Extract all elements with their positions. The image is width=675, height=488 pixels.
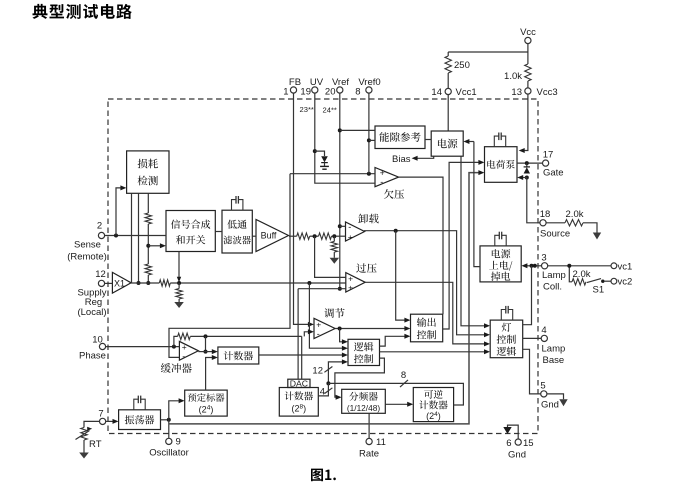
pin 19 UV bbox=[312, 87, 318, 93]
Buff output divider bbox=[289, 235, 297, 237]
Vcc terminal bbox=[525, 37, 531, 43]
block signal-combine 信号合成和开关 bbox=[166, 211, 215, 252]
svg-text:15: 15 bbox=[523, 438, 534, 449]
wire divider tap to overvoltage bbox=[315, 236, 346, 277]
svg-text:23**: 23** bbox=[300, 105, 314, 114]
svg-text:19: 19 bbox=[300, 86, 311, 97]
pin 9 Oscillator bbox=[166, 438, 172, 444]
pin 20 Vref bbox=[337, 87, 343, 93]
block outctrl 输出控制 bbox=[411, 314, 443, 342]
pin 5 Gnd bbox=[541, 391, 547, 397]
IC boundary dashed box bbox=[108, 99, 538, 434]
svg-text:8: 8 bbox=[401, 370, 406, 381]
svg-text:Vcc3: Vcc3 bbox=[537, 87, 558, 98]
resistor 1.0k bbox=[527, 52, 529, 64]
wire divider to revcounter bbox=[385, 403, 407, 405]
capacitor on oscillator bbox=[134, 399, 139, 410]
svg-text:vc1: vc1 bbox=[618, 261, 633, 272]
terminal Ovc2 with switch S1 bbox=[611, 278, 617, 284]
svg-text:Oscillator: Oscillator bbox=[149, 448, 189, 459]
svg-text:UV: UV bbox=[310, 77, 324, 88]
comparator dump 卸载 bbox=[346, 222, 365, 241]
svg-text:(28): (28) bbox=[291, 404, 306, 414]
wire overvoltage output bbox=[365, 282, 485, 344]
capacitor on lowpass bbox=[232, 200, 237, 211]
wire sense line bbox=[105, 235, 166, 237]
svg-text:3: 3 bbox=[541, 252, 546, 263]
svg-text:Gnd: Gnd bbox=[508, 450, 526, 461]
op-amp X1 bbox=[112, 272, 131, 293]
svg-text:S1: S1 bbox=[593, 285, 605, 296]
svg-text:Coll.: Coll. bbox=[543, 281, 562, 292]
svg-text:vc2: vc2 bbox=[618, 277, 633, 288]
svg-text:(Local): (Local) bbox=[77, 307, 106, 318]
comparator UV-lockout 欠压 bbox=[375, 168, 399, 187]
svg-text:Phase: Phase bbox=[79, 350, 106, 361]
svg-text:(24): (24) bbox=[199, 405, 214, 415]
svg-text:+: + bbox=[348, 232, 353, 242]
svg-text:24**: 24** bbox=[323, 106, 337, 115]
block revcounter 可逆计数器 bbox=[413, 388, 453, 422]
block lowpass 低通滤波器 bbox=[222, 210, 252, 253]
svg-text:12: 12 bbox=[95, 269, 106, 280]
svg-text:13: 13 bbox=[511, 87, 522, 98]
wire Vref to overvoltage bbox=[298, 288, 346, 290]
bus 4 to DAC counter bbox=[318, 383, 328, 396]
wire oscillator clock long line bbox=[169, 173, 479, 424]
svg-text:1.0k: 1.0k bbox=[504, 71, 522, 82]
svg-text:17: 17 bbox=[543, 150, 554, 161]
wire logicctrl to divider bbox=[335, 358, 385, 397]
block lamplogic 灯控制逻辑 bbox=[490, 320, 523, 358]
svg-text:18: 18 bbox=[540, 209, 551, 220]
pin 11 Rate bbox=[366, 438, 372, 444]
caption 图1. bbox=[311, 469, 323, 482]
bus 12 to logicctrl bbox=[328, 362, 342, 384]
block loss-detect 损耗检测 bbox=[127, 151, 169, 193]
title bbox=[32, 4, 47, 19]
svg-text:7: 7 bbox=[98, 409, 103, 420]
wire logicctrl to outctrl bbox=[380, 336, 406, 346]
resistor 2.0k at Source bbox=[546, 222, 565, 224]
svg-text:11: 11 bbox=[376, 437, 386, 448]
resistor 250 bbox=[447, 52, 449, 56]
svg-text:+: + bbox=[348, 283, 353, 293]
block bandgap 能隙参考 bbox=[375, 126, 425, 149]
wire signal-combine down arrow bbox=[178, 252, 180, 278]
RT network bbox=[84, 421, 100, 427]
wire clamp to source bbox=[527, 178, 540, 223]
svg-text:Gnd: Gnd bbox=[541, 400, 559, 411]
wire pin3 to Ovc1 bbox=[548, 265, 611, 267]
comparator overvoltage 过压 bbox=[346, 273, 365, 292]
resistor 2.0k at pin3 bbox=[569, 266, 572, 282]
block prescaler 预定标器 bbox=[185, 390, 228, 416]
wire DAC link from vref node bbox=[297, 289, 299, 380]
wire outctrl to chargepump bbox=[443, 162, 479, 329]
wire Vref to dump minus bbox=[340, 225, 346, 227]
svg-text:2.0k: 2.0k bbox=[566, 209, 584, 220]
svg-text:2.0k: 2.0k bbox=[573, 269, 591, 280]
wire regulate to logicctrl bbox=[340, 329, 343, 342]
wire buffer out to counter bbox=[198, 351, 212, 353]
wire gate output bbox=[517, 162, 543, 164]
wire pin7 to oscillator bbox=[106, 420, 113, 422]
svg-text:2: 2 bbox=[97, 220, 102, 231]
svg-text:FB: FB bbox=[289, 77, 301, 88]
bus 8 to revcounter bbox=[328, 383, 463, 405]
pin 4 Lamp Base bbox=[541, 335, 547, 341]
svg-text:Vcc: Vcc bbox=[520, 27, 536, 38]
svg-text:14: 14 bbox=[431, 87, 442, 98]
svg-text:Gate: Gate bbox=[543, 168, 564, 179]
svg-text:-: - bbox=[380, 177, 383, 187]
wire loss-detect out1 bbox=[131, 193, 133, 283]
block divider 分频器 bbox=[342, 389, 386, 413]
block power 电源 bbox=[431, 131, 463, 156]
wire counter to logicctrl bbox=[259, 354, 343, 356]
pin 7 bbox=[100, 418, 106, 424]
wire loss-detect out2 bbox=[138, 193, 140, 283]
wire power to lamplogic bbox=[461, 156, 485, 326]
wire UV-lockout output bbox=[399, 177, 443, 314]
wire oscillator output node bbox=[161, 419, 169, 421]
pin 18 Source bbox=[540, 220, 546, 226]
wire UV line bbox=[315, 93, 375, 183]
wire logicctrl to lamplogic bbox=[380, 351, 485, 353]
wire Vref0 to bandgap bbox=[369, 139, 375, 141]
svg-text:4: 4 bbox=[541, 325, 546, 336]
wire pin3 to powerupdown bbox=[527, 265, 542, 267]
block powerupdown 电源上电/掉电 bbox=[480, 246, 521, 282]
svg-text:250: 250 bbox=[454, 60, 470, 71]
svg-text:10: 10 bbox=[92, 335, 103, 346]
pin 14 Vcc1 bbox=[445, 88, 451, 94]
svg-text:Buff: Buff bbox=[261, 231, 277, 241]
wire lowpass to Buff bbox=[252, 235, 256, 237]
svg-text:Rate: Rate bbox=[359, 449, 379, 460]
Bias output bbox=[417, 156, 433, 158]
svg-text:8: 8 bbox=[355, 86, 360, 97]
wire lamplogic to pin5 bbox=[523, 349, 541, 394]
wire DAC link from feedback line bbox=[301, 336, 303, 379]
wire FB line bbox=[294, 93, 309, 324]
wire signal-combine to lowpass bbox=[215, 231, 222, 233]
svg-text:1: 1 bbox=[283, 86, 288, 97]
wire Vref0 pin line bbox=[368, 93, 370, 174]
block logicctrl 逻辑控制 bbox=[348, 339, 380, 365]
svg-text:5: 5 bbox=[540, 380, 545, 391]
svg-text:(Remote): (Remote) bbox=[67, 251, 107, 262]
block chargepump 电荷泵 bbox=[485, 147, 518, 183]
capacitor on lamplogic bbox=[501, 310, 506, 321]
wire vref0 to UV-lockout plus bbox=[290, 173, 375, 175]
wire vref0 reference loop bbox=[169, 174, 290, 358]
svg-text:9: 9 bbox=[176, 437, 181, 448]
svg-text:RT: RT bbox=[89, 439, 102, 450]
svg-text:20: 20 bbox=[325, 86, 336, 97]
wire lamplogic to pin4 bbox=[523, 337, 542, 339]
wire regulate output bbox=[335, 328, 405, 330]
pin 3 Lamp Coll bbox=[542, 263, 548, 269]
svg-text:4: 4 bbox=[320, 387, 325, 398]
wire prescaler to counter bbox=[206, 358, 212, 391]
pin 17 Gate bbox=[543, 160, 549, 166]
wire feedback line to regulate minus bbox=[304, 332, 308, 337]
terminal Ovc1 bbox=[611, 263, 617, 269]
svg-text:Lamp: Lamp bbox=[542, 270, 566, 281]
wire bandgap to power bbox=[425, 139, 431, 141]
svg-text:-: - bbox=[348, 222, 351, 232]
block oscillator 振荡器 bbox=[119, 410, 161, 430]
svg-text:Sense: Sense bbox=[74, 240, 101, 251]
wire power to powerupdown bbox=[474, 142, 480, 267]
block DAC counter DAC计数器 bbox=[288, 379, 310, 387]
block counter 计数器 bbox=[218, 347, 259, 364]
svg-text:+: + bbox=[182, 342, 187, 352]
pin 1 FB bbox=[290, 87, 296, 93]
svg-text:(24): (24) bbox=[426, 411, 441, 421]
pin 13 Vcc3 bbox=[525, 88, 531, 94]
svg-text:Base: Base bbox=[543, 355, 565, 366]
svg-text:12: 12 bbox=[312, 366, 323, 377]
wire dump output bbox=[365, 231, 485, 335]
buffer amp Buff bbox=[256, 220, 289, 252]
comparator regulate 调节 bbox=[314, 318, 335, 338]
resistor X1 pulldown to ground bbox=[178, 283, 180, 289]
ground bars at UV diode bbox=[320, 165, 329, 167]
svg-text:Lamp: Lamp bbox=[542, 344, 566, 355]
wire loss-detect out3 with resistors bbox=[147, 193, 149, 213]
svg-text:Bias: Bias bbox=[392, 154, 411, 165]
svg-text:(1/12/48): (1/12/48) bbox=[347, 403, 380, 413]
capacitor on chargepump bbox=[494, 136, 499, 147]
wire X1 line to logicctrl bbox=[309, 283, 342, 348]
capacitor on powerupdown bbox=[495, 235, 500, 246]
wire sense to loss-detect bbox=[116, 188, 121, 236]
wire phase to buffer bbox=[106, 346, 180, 348]
svg-text:Vcc1: Vcc1 bbox=[456, 87, 477, 98]
wire Vref to bandgap bbox=[340, 129, 375, 131]
buffer amp 缓冲器 bbox=[179, 341, 198, 360]
svg-text:-: - bbox=[317, 329, 320, 339]
wire X1 output line bbox=[105, 282, 113, 284]
wire tap to signal-combine bbox=[148, 245, 160, 247]
wire dump to outctrl bbox=[396, 231, 405, 320]
svg-text:X1: X1 bbox=[114, 278, 125, 288]
pin 12 Supply Reg bbox=[98, 280, 104, 286]
svg-text:Source: Source bbox=[540, 229, 570, 240]
wire pin3 down to lamplogic bbox=[523, 266, 532, 325]
wire Vref line bbox=[339, 93, 341, 289]
pin 10 Phase bbox=[99, 343, 105, 349]
buffer feedback resistor bbox=[174, 336, 178, 346]
pin 8 Vref0 bbox=[366, 87, 372, 93]
resistor divider pulldown bbox=[333, 236, 335, 241]
svg-text:Vref0: Vref0 bbox=[358, 77, 380, 88]
pin 2 Sense bbox=[98, 232, 104, 238]
diode at UV pin bbox=[315, 151, 325, 156]
svg-text:6: 6 bbox=[506, 438, 511, 449]
pins 6 15 Gnd bbox=[515, 439, 521, 445]
gate clamp diode bbox=[526, 163, 528, 167]
svg-text:-: - bbox=[182, 352, 185, 362]
